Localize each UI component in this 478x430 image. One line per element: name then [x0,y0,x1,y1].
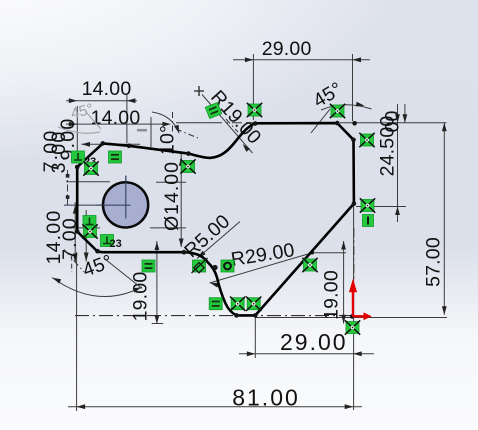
dimension 7.00 lower-left [85,210,87,262]
svg-text:57.00: 57.00 [423,237,445,287]
svg-text:24.500: 24.500 [376,116,398,177]
dimension R5.00 [197,222,240,259]
svg-text:81.00: 81.00 [232,385,300,411]
dimension diameter 14.00 [180,154,182,247]
extension line 81 left [76,252,78,411]
extension line circle top right [156,181,186,183]
dimension 45deg gray preview [58,112,101,133]
dimension 19.00 center [156,241,158,324]
dimension 45deg bottom-left [52,278,142,297]
dimension 29.00 bottom [239,353,374,355]
extension line left edge up [76,106,78,163]
sketch origin red arrows [349,279,372,321]
extension line bottom right horizontal [255,317,447,319]
constraint boxes [72,151,85,163]
extension line bottom29 left [254,318,256,358]
dimension 57.00 [443,123,445,315]
construction line left of top vertex [176,122,254,124]
dimension 14.00 top-left upper [66,100,137,102]
svg-text:29.00: 29.00 [280,329,348,355]
vertex points [75,121,357,319]
dimension 81.00 [68,406,362,408]
svg-text:29.00: 29.00 [262,38,312,60]
dimension 10deg [152,112,179,133]
svg-text:19.00: 19.00 [321,270,343,320]
dimension 19.00 right [343,241,345,324]
dimension R29.00 [210,253,313,283]
extension line x127 top [126,95,128,143]
circle centerlines [125,176,127,219]
extension line right column [353,205,355,410]
extension line circle bottom right [150,227,186,229]
extension line circle center horizontal [64,204,131,206]
construction centerline horizontal [75,315,352,317]
svg-text:19.00: 19.00 [130,272,152,322]
profile outline [77,123,354,315]
construction centerline vertical at origin [353,228,355,281]
dimension 45deg top-right [321,105,372,110]
circle (sketch hole, shaded region) [103,182,148,227]
svg-text:14.00: 14.00 [82,78,132,100]
extension line circle top left [66,181,110,183]
svg-text:23: 23 [110,238,122,250]
dimension 29.00 top [233,59,370,61]
extension line top29 left [252,54,254,120]
dimension 14.00 top-left lower [66,123,167,125]
extension line 24.5 bottom [356,206,406,208]
extension line top29 right [352,54,354,121]
svg-text:Ø14.00: Ø14.00 [161,161,183,231]
dimension 7.00 upper-left [67,170,69,205]
extension line x151 [150,117,152,147]
reference line y144 with arrow [82,143,141,145]
circle center vertical line [125,176,127,220]
dimension 24.500 right [397,104,399,222]
extension line top right y125 [340,122,447,124]
dimension R19.00 [194,86,204,96]
extension line 19 right top [312,252,346,254]
dimension 14.00 lower-left [74,202,76,263]
extension line circle bottom left [66,227,100,229]
